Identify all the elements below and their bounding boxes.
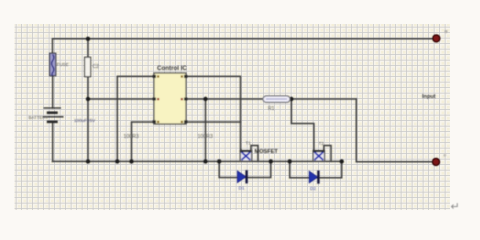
wire IC mid-right through R1 (186, 98, 264, 100)
junction bottom rail x205 (203, 159, 207, 163)
capacitor C2 (85, 57, 91, 76)
transistor Q1 MOSFET (240, 149, 251, 162)
junction bottom rail / D1 cathode riser (269, 159, 273, 163)
wire IC bottom-left to column x131.5 (132, 122, 155, 161)
wire D1 loop (219, 161, 271, 177)
wire Q1 drain hook (251, 146, 258, 162)
wire Q2 gate path (291, 99, 314, 151)
junction bottom rail / D1 anode drop (217, 159, 221, 163)
resistor R1 (263, 96, 290, 102)
svg-text:D1: D1 (239, 186, 245, 191)
svg-text:100R3: 100R3 (124, 134, 139, 140)
wire IC pin1 top-left to column x117.3 (117, 76, 154, 161)
svg-text:T2: T2 (319, 141, 325, 146)
svg-text:MOSFET: MOSFET (255, 149, 279, 155)
wire IC bottom-right joining gate vertical (186, 121, 241, 123)
diode D2 (309, 171, 318, 184)
svg-text:BATTERY: BATTERY (29, 115, 49, 120)
junction bottom rail x117 (115, 159, 119, 163)
wire output branch to lower connector (356, 99, 433, 162)
junction top rail / C2 column (86, 37, 90, 41)
junction C2 column / IC pin wire (86, 97, 90, 101)
wire IC top-right to Q1 gate (186, 76, 241, 150)
junction bottom rail / D2 anode drop (288, 159, 292, 163)
svg-text:R1: R1 (268, 106, 275, 112)
wire D2 loop (290, 161, 342, 177)
diode D1 (237, 170, 246, 183)
svg-text:T1: T1 (246, 140, 252, 145)
fuse F1 (50, 53, 56, 75)
junction R1 net / rail drop (203, 97, 207, 101)
svg-text:100R3: 100R3 (198, 134, 213, 140)
junction bottom rail / D2 cathode riser (340, 159, 344, 163)
wire Q2 drain hook (324, 146, 331, 162)
node input connector bottom (433, 154, 447, 165)
wire C2 column (87, 39, 89, 58)
battery B1 (43, 108, 64, 122)
junction R1 output node (289, 97, 293, 101)
svg-text:100uF25V: 100uF25V (74, 118, 96, 123)
grid sheet (15, 24, 451, 210)
svg-text:Input: Input (422, 94, 436, 100)
svg-text:D2: D2 (310, 186, 316, 191)
svg-text:C2: C2 (93, 64, 100, 70)
wire left column (battery/fuse branch) (52, 39, 54, 54)
svg-text:FUSE: FUSE (57, 62, 69, 67)
op-amp U1 control IC (153, 73, 188, 124)
wire bottom rail (53, 160, 342, 162)
wire top rail (53, 38, 434, 40)
junction bottom rail / C2 column (86, 159, 90, 163)
node input connector top (433, 30, 448, 42)
junction bottom rail x131 (129, 159, 133, 163)
wire IC mid-left to C2 column (88, 98, 154, 100)
svg-text:Control IC: Control IC (157, 65, 187, 72)
svg-text:↵: ↵ (451, 201, 460, 213)
wire R1 node down to rail (205, 99, 207, 161)
transistor Q2 MOSFET (313, 149, 324, 162)
